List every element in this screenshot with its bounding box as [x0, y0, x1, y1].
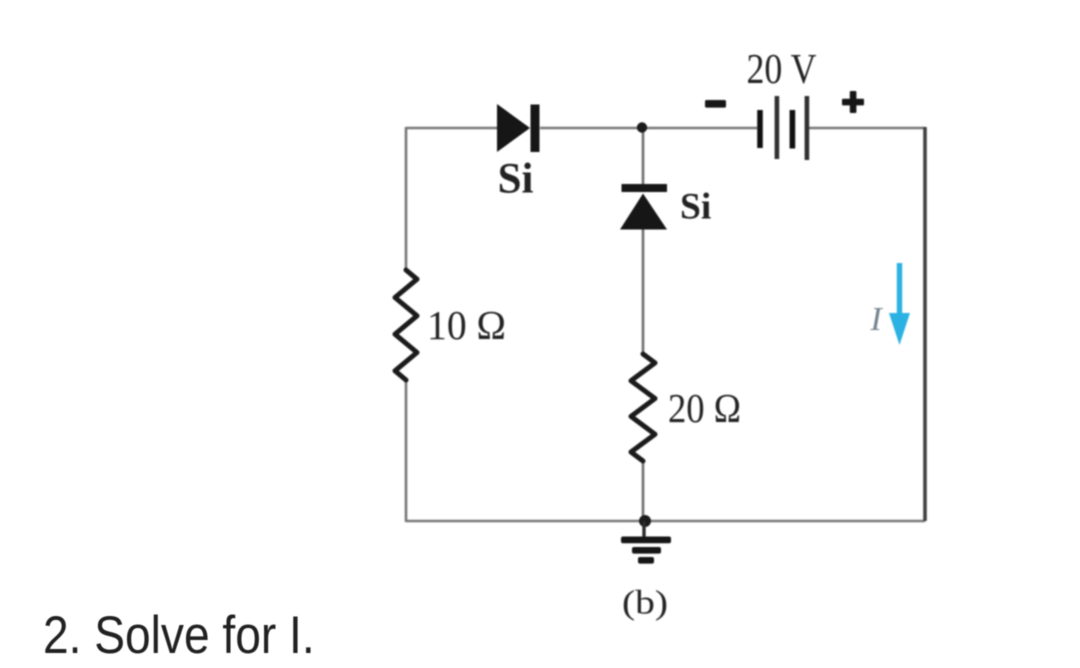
svg-text:10 Ω: 10 Ω	[427, 302, 506, 348]
svg-text:I: I	[869, 301, 883, 338]
svg-text:20 V: 20 V	[747, 46, 817, 93]
svg-text:20 Ω: 20 Ω	[668, 385, 741, 431]
svg-text:Si: Si	[680, 187, 711, 228]
svg-text:Si: Si	[498, 156, 534, 203]
svg-text:(b): (b)	[622, 585, 668, 622]
